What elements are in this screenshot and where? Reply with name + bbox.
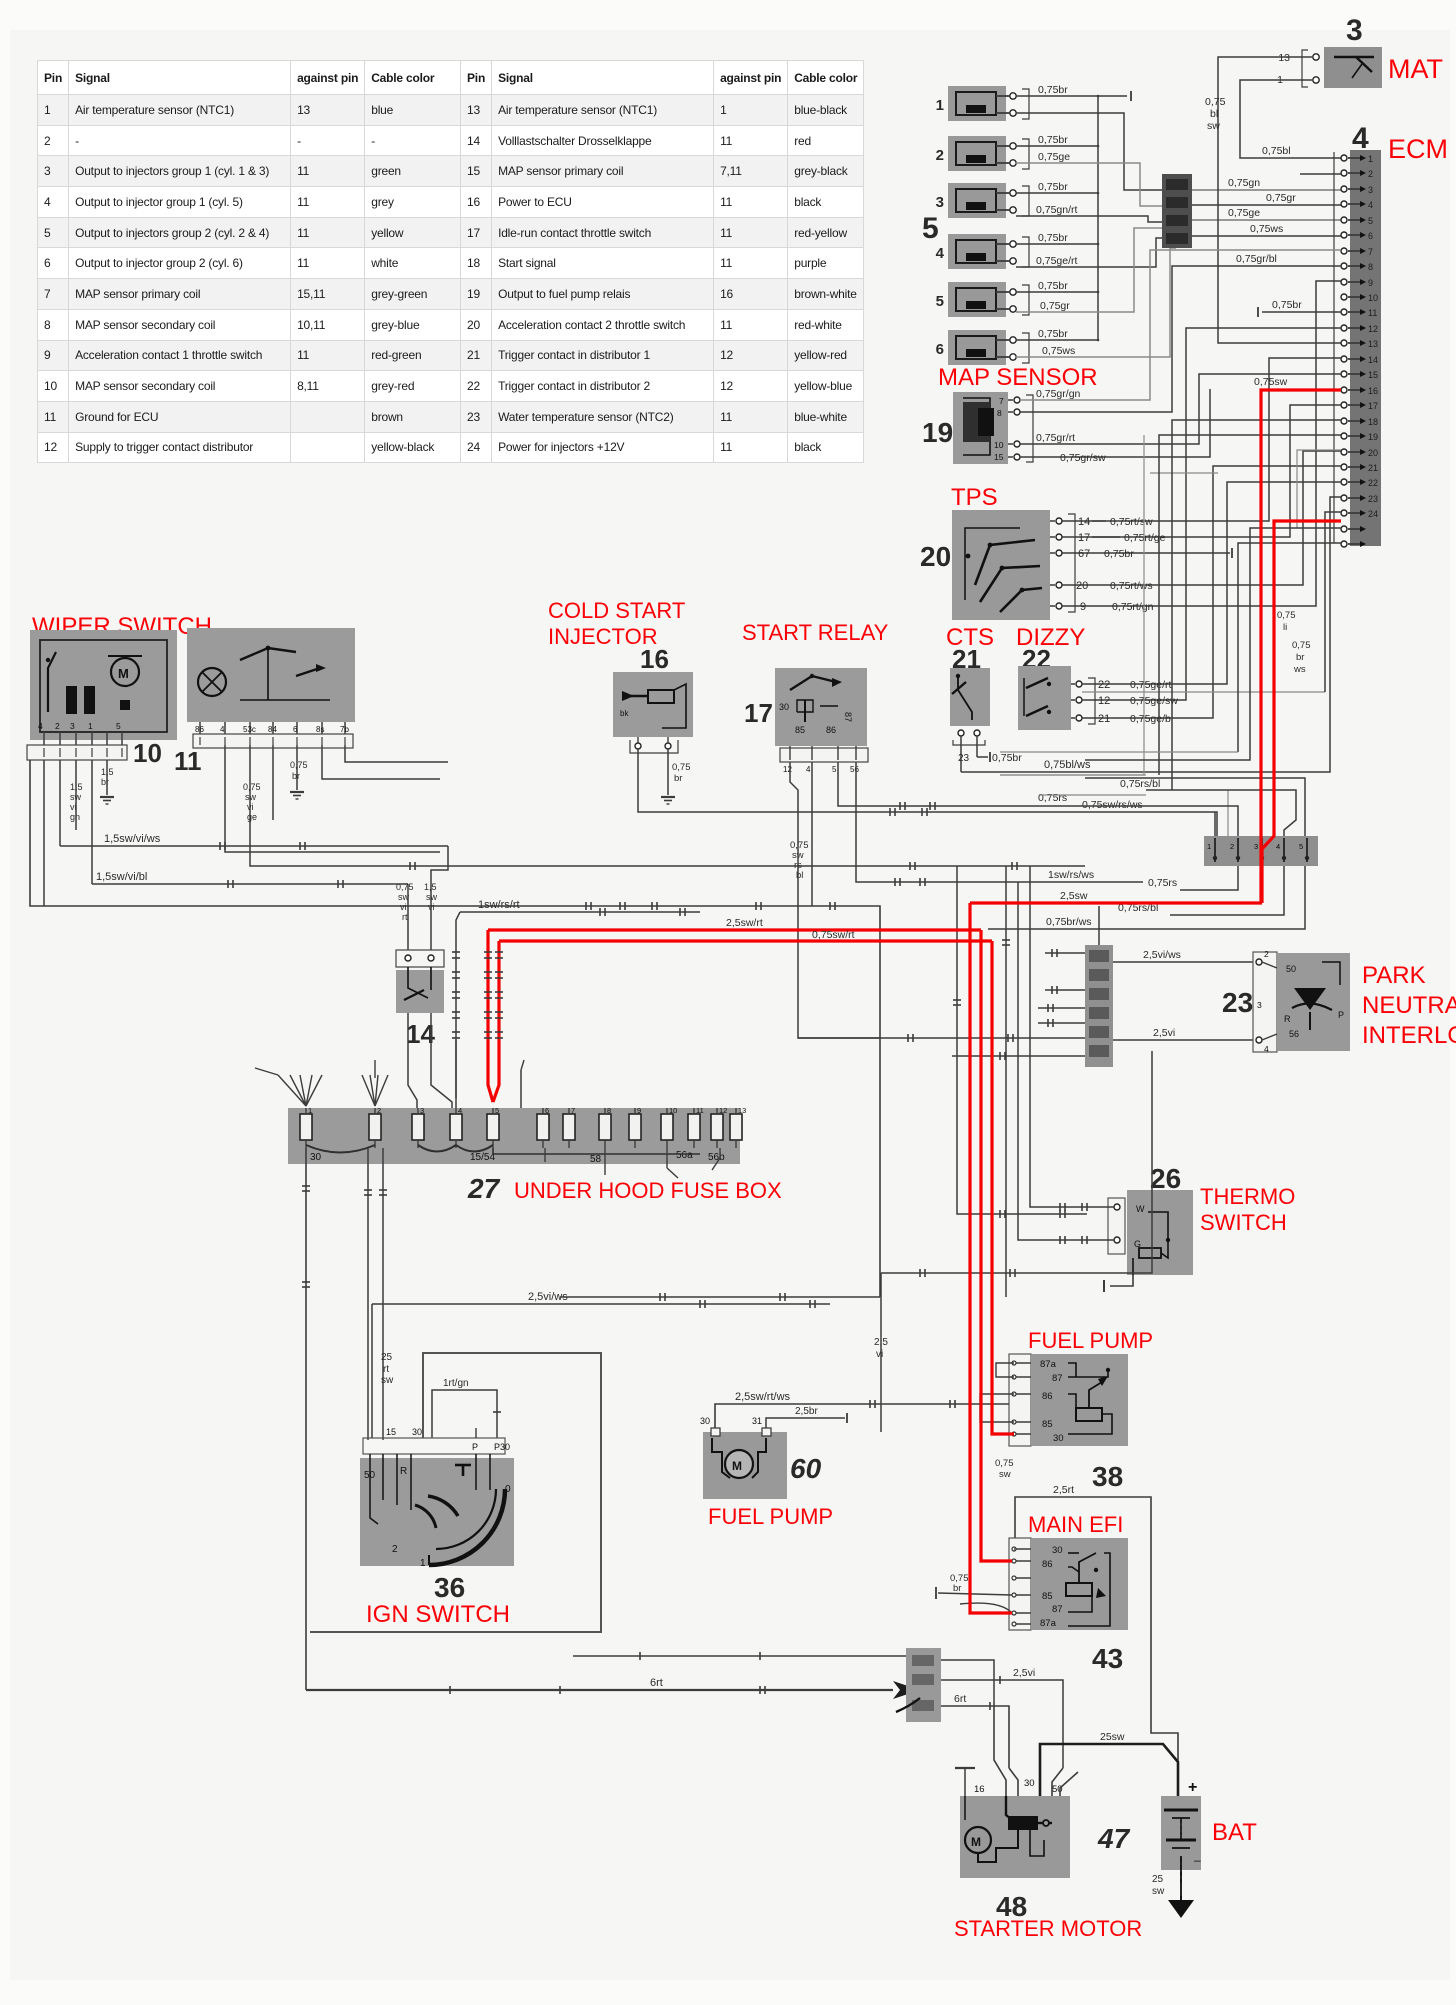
wiper switch contacts bbox=[66, 686, 77, 714]
svg-text:0,75gr/rt: 0,75gr/rt bbox=[1036, 432, 1075, 444]
svg-text:2: 2 bbox=[1230, 842, 1234, 851]
svg-text:2: 2 bbox=[55, 721, 60, 731]
svg-text:24: 24 bbox=[1368, 509, 1378, 519]
red arrow into fuse 5 bbox=[488, 930, 493, 1102]
svg-text:20: 20 bbox=[1076, 580, 1088, 592]
wire y1656 through connector to starter 30 bbox=[941, 1660, 994, 1703]
svg-text:16: 16 bbox=[1368, 386, 1378, 396]
svg-text:53c: 53c bbox=[243, 725, 256, 734]
relay box 11 bbox=[187, 628, 355, 722]
svg-text:0,75br: 0,75br bbox=[1104, 548, 1134, 560]
fuse 1 bbox=[300, 1114, 312, 1140]
wire 2,5rt loop bbox=[1015, 1497, 1178, 1796]
wire DIZZY 22 ge/rt to ECM pin22 bbox=[1082, 482, 1341, 684]
svg-text:87a: 87a bbox=[1040, 1618, 1057, 1629]
svg-text:7: 7 bbox=[1368, 247, 1373, 257]
svg-text:1sw/rs/rt: 1sw/rs/rt bbox=[478, 899, 520, 911]
wire from P short stub bbox=[475, 1428, 477, 1438]
svg-text:85: 85 bbox=[1042, 1591, 1053, 1602]
svg-text:12: 12 bbox=[1368, 324, 1378, 334]
svg-text:6: 6 bbox=[936, 341, 944, 358]
svg-text:0,75ge/bl: 0,75ge/bl bbox=[1130, 713, 1173, 725]
svg-text:6rt: 6rt bbox=[954, 1693, 966, 1705]
svg-text:12: 12 bbox=[1098, 695, 1110, 707]
svg-text:15: 15 bbox=[386, 1427, 396, 1437]
wire 85 squiggle bbox=[960, 1603, 1012, 1613]
svg-text:ge: ge bbox=[247, 812, 257, 822]
small connector above starter bbox=[906, 1648, 941, 1722]
svg-text:vi: vi bbox=[247, 802, 254, 812]
svg-text:0,75ge/rt: 0,75ge/rt bbox=[1130, 679, 1172, 691]
wire inj3 gn/rt bbox=[1016, 216, 1162, 222]
wire y795 horizontal rs/bl upper bbox=[1040, 794, 1146, 796]
svg-text:22: 22 bbox=[1098, 679, 1110, 691]
svg-text:56a: 56a bbox=[676, 1150, 693, 1161]
fuel pump motor 60 bbox=[703, 1432, 787, 1499]
svg-text:23: 23 bbox=[1222, 987, 1253, 1018]
extra mesh verticals above 5pin strip bbox=[1227, 790, 1229, 836]
svg-text:0,75: 0,75 bbox=[1292, 640, 1311, 651]
svg-text:0,75: 0,75 bbox=[290, 760, 308, 770]
relay 11 right wires across bbox=[345, 745, 448, 762]
svg-text:P: P bbox=[1338, 1010, 1344, 1020]
svg-text:6: 6 bbox=[293, 725, 298, 734]
svg-text:0,75ge/sw: 0,75ge/sw bbox=[1130, 695, 1178, 707]
ignition switch connector row bbox=[363, 1438, 505, 1454]
extra mesh vertical x1144 bbox=[1000, 435, 1144, 775]
svg-text:vi: vi bbox=[428, 902, 435, 912]
svg-text:23: 23 bbox=[958, 753, 970, 764]
svg-text:12: 12 bbox=[783, 765, 792, 774]
fuse 7 bbox=[563, 1114, 575, 1140]
wire 2,5br terminator bbox=[766, 1418, 845, 1428]
svg-text:30: 30 bbox=[310, 1152, 322, 1163]
svg-text:9: 9 bbox=[637, 1106, 641, 1115]
svg-text:0,75br: 0,75br bbox=[992, 752, 1022, 764]
svg-text:10: 10 bbox=[994, 440, 1004, 450]
svg-text:ws: ws bbox=[1293, 664, 1306, 675]
svg-text:17: 17 bbox=[1368, 401, 1378, 411]
svg-text:START RELAY: START RELAY bbox=[742, 620, 889, 645]
svg-text:0,75br: 0,75br bbox=[1038, 280, 1068, 292]
svg-text:1,5: 1,5 bbox=[101, 767, 114, 777]
wires 14 down to fuse box bbox=[408, 1013, 417, 1108]
svg-text:P30: P30 bbox=[494, 1442, 510, 1452]
wire CTS 0,75bl/ws to ECM pin23 bbox=[961, 497, 1341, 772]
fuse 4 bbox=[450, 1114, 462, 1140]
svg-text:0,75gn/rt: 0,75gn/rt bbox=[1036, 204, 1078, 216]
injector connector 1 bbox=[948, 86, 1006, 121]
5-pin connector strip bbox=[1204, 836, 1318, 866]
motor M symbol bbox=[725, 1450, 753, 1478]
ignition switch arcs bbox=[429, 1489, 505, 1565]
svg-text:br: br bbox=[953, 1583, 961, 1594]
extra mesh wire y473 bbox=[1150, 472, 1218, 474]
wires 15 30 entering connector from fuse box bbox=[367, 1438, 369, 1440]
wire y752 and y760 horizontals bbox=[1000, 751, 1238, 753]
svg-text:5: 5 bbox=[116, 721, 121, 731]
svg-text:26: 26 bbox=[1150, 1163, 1181, 1194]
svg-text:58: 58 bbox=[590, 1154, 602, 1165]
svg-text:sw: sw bbox=[1152, 1886, 1165, 1897]
svg-text:20: 20 bbox=[920, 541, 951, 572]
wire y1297 horizontal bbox=[560, 1296, 880, 1298]
wire strip pin4 down rs/bl bbox=[1170, 866, 1284, 915]
faint second wire under dizzy pin1 bbox=[1082, 691, 1325, 693]
svg-text:10: 10 bbox=[133, 738, 162, 768]
svg-text:14: 14 bbox=[1078, 516, 1090, 528]
svg-text:0,75rs: 0,75rs bbox=[1038, 792, 1067, 804]
wire inj1 gn to connector bbox=[1016, 113, 1162, 190]
wire inj4 ge/rt bbox=[1016, 238, 1162, 267]
svg-text:BAT: BAT bbox=[1212, 1819, 1257, 1846]
svg-text:gn: gn bbox=[70, 812, 80, 822]
svg-text:0,75ge: 0,75ge bbox=[1038, 151, 1070, 163]
svg-text:0,75bl: 0,75bl bbox=[1262, 145, 1291, 157]
ground T above 16 bbox=[955, 1767, 975, 1769]
svg-text:6: 6 bbox=[1368, 231, 1373, 241]
svg-text:0,75rt/sw: 0,75rt/sw bbox=[1110, 516, 1153, 528]
fuse link arcs under box bbox=[306, 1145, 375, 1153]
svg-text:15: 15 bbox=[994, 452, 1004, 462]
svg-text:2,5sw: 2,5sw bbox=[1060, 890, 1088, 902]
wire 0,75rs/bl to strip pin4 bbox=[1146, 790, 1296, 836]
wire splays into fuse 2 bbox=[362, 1075, 375, 1106]
svg-text:25: 25 bbox=[381, 1352, 393, 1363]
relay 38 pin stubs bbox=[1012, 1362, 1031, 1364]
svg-text:bl: bl bbox=[1210, 108, 1218, 120]
injector connector 6 bbox=[948, 330, 1006, 365]
DIZZY pins bbox=[1076, 681, 1082, 687]
svg-text:47: 47 bbox=[1097, 1823, 1131, 1854]
svg-text:86: 86 bbox=[1042, 1559, 1053, 1570]
svg-text:1: 1 bbox=[88, 721, 93, 731]
wire y1656 from ign area to starter connector bbox=[573, 1655, 906, 1657]
wiper switch pins bbox=[43, 732, 45, 745]
injector symbol bbox=[648, 690, 674, 703]
svg-text:–: – bbox=[1194, 1853, 1201, 1867]
svg-text:8: 8 bbox=[997, 408, 1002, 418]
svg-text:3: 3 bbox=[420, 1106, 424, 1115]
wire y778 right vertical into pin5 bbox=[1085, 778, 1305, 836]
relay 11 lever bbox=[240, 648, 296, 660]
svg-text:0,75br: 0,75br bbox=[1038, 232, 1068, 244]
svg-text:2: 2 bbox=[377, 1106, 381, 1115]
wire top of vertical strip bbox=[1098, 906, 1100, 945]
svg-text:1: 1 bbox=[308, 1106, 312, 1115]
svg-text:1,5: 1,5 bbox=[70, 782, 83, 792]
svg-text:0,75ge/rt: 0,75ge/rt bbox=[1036, 255, 1078, 267]
relay 38 left wires bbox=[996, 1363, 1014, 1377]
svg-text:br: br bbox=[1296, 652, 1304, 663]
svg-text:56b: 56b bbox=[708, 1152, 725, 1163]
svg-text:7: 7 bbox=[999, 396, 1004, 406]
svg-text:38: 38 bbox=[1092, 1461, 1123, 1492]
wire 2,5vi to park neutral bbox=[1113, 1039, 1256, 1041]
svg-text:2: 2 bbox=[1368, 169, 1373, 179]
svg-text:87a: 87a bbox=[1040, 1359, 1057, 1370]
red wire horizontal y930 from fuse bbox=[488, 928, 981, 931]
svg-text:FUEL PUMP: FUEL PUMP bbox=[708, 1504, 833, 1529]
svg-text:30: 30 bbox=[700, 1416, 710, 1426]
svg-text:2,5vi/ws: 2,5vi/ws bbox=[1143, 949, 1181, 961]
battery plates bbox=[1164, 1809, 1198, 1812]
svg-text:0,75: 0,75 bbox=[243, 782, 261, 792]
svg-text:2: 2 bbox=[936, 147, 944, 164]
svg-text:7: 7 bbox=[571, 1106, 575, 1115]
svg-text:4: 4 bbox=[38, 721, 43, 731]
relay 11 harness down bbox=[249, 745, 251, 860]
svg-text:13: 13 bbox=[738, 1106, 746, 1115]
thermo pins bbox=[1108, 1198, 1125, 1254]
svg-text:0,75sw/rs/ws: 0,75sw/rs/ws bbox=[1082, 799, 1143, 811]
pin signal table 1 bbox=[0, 0, 1456, 1]
svg-text:0,75br/ws: 0,75br/ws bbox=[1046, 916, 1092, 928]
svg-text:50: 50 bbox=[1286, 964, 1296, 974]
red vertical x992 to relay38 30 bbox=[992, 941, 1014, 1434]
thermo ground bbox=[1110, 1275, 1133, 1286]
svg-text:0,75br: 0,75br bbox=[1038, 328, 1068, 340]
svg-text:4: 4 bbox=[806, 765, 811, 774]
svg-text:2,5sw/rt: 2,5sw/rt bbox=[726, 917, 763, 929]
red vertical x981 to relay43 86 bbox=[981, 930, 1012, 1561]
vertical 8-cell connector strip bbox=[1085, 945, 1113, 1067]
svg-text:13: 13 bbox=[1368, 339, 1378, 349]
svg-text:rt: rt bbox=[402, 912, 408, 922]
svg-text:30: 30 bbox=[1024, 1778, 1035, 1789]
wire DIZZY 21 ge/bl to ECM pin21 bbox=[1082, 466, 1341, 718]
svg-text:COLD START: COLD START bbox=[548, 598, 685, 623]
start relay internals bbox=[790, 676, 836, 690]
svg-text:50: 50 bbox=[1052, 1784, 1063, 1795]
svg-text:8: 8 bbox=[1368, 262, 1373, 272]
svg-text:3: 3 bbox=[1254, 842, 1258, 851]
starter internals bbox=[965, 1827, 991, 1853]
starter feed slants bbox=[994, 1703, 1006, 1796]
svg-text:2: 2 bbox=[1264, 949, 1269, 959]
MAT sensor box 3 bbox=[1324, 47, 1382, 88]
svg-text:0,75rt/gn: 0,75rt/gn bbox=[1112, 601, 1154, 613]
svg-text:21: 21 bbox=[1098, 713, 1110, 725]
ECM left bracket rail bbox=[1333, 152, 1335, 543]
CTS pins bbox=[958, 730, 964, 736]
svg-text:14: 14 bbox=[1368, 355, 1378, 365]
svg-text:0,75sw/rt: 0,75sw/rt bbox=[812, 929, 855, 941]
wire 6rt right from connector bbox=[941, 1706, 1009, 1768]
svg-text:M: M bbox=[971, 1835, 981, 1849]
svg-text:0,75: 0,75 bbox=[1277, 610, 1296, 621]
svg-text:18: 18 bbox=[1368, 417, 1378, 427]
wire 2,5vi/ws bbox=[372, 1303, 830, 1305]
vertical 2,5vi middle bbox=[880, 1273, 882, 1432]
svg-text:M: M bbox=[118, 666, 129, 681]
svg-text:10: 10 bbox=[669, 1106, 677, 1115]
svg-text:0,75gr: 0,75gr bbox=[1040, 300, 1070, 312]
svg-text:NEUTRAL: NEUTRAL bbox=[1362, 992, 1456, 1019]
svg-text:vi: vi bbox=[876, 1349, 883, 1360]
svg-text:1,5sw/vi/ws: 1,5sw/vi/ws bbox=[104, 833, 161, 845]
svg-text:1: 1 bbox=[936, 97, 944, 114]
svg-text:23: 23 bbox=[1368, 494, 1378, 504]
svg-text:1sw/rs/ws: 1sw/rs/ws bbox=[1048, 869, 1094, 881]
svg-text:1rt/gn: 1rt/gn bbox=[443, 1378, 469, 1389]
svg-text:3: 3 bbox=[1257, 1000, 1262, 1010]
wire 2,5vi right from connector bbox=[941, 1680, 1063, 1768]
wire TPS 9 rt/gn to ECM pin9 bbox=[1062, 281, 1341, 606]
svg-text:rt: rt bbox=[383, 1364, 389, 1375]
red wire from ECM pin24 down bbox=[1262, 521, 1341, 903]
svg-text:17: 17 bbox=[1078, 532, 1090, 544]
svg-text:5: 5 bbox=[922, 212, 939, 245]
wire into strip cell y990 bbox=[1045, 989, 1085, 991]
wire splays into fuse 1 bbox=[278, 1075, 306, 1106]
svg-text:MAIN EFI: MAIN EFI bbox=[1028, 1512, 1123, 1537]
start relay wire down to y1038 bbox=[790, 762, 880, 1038]
ECM pin11 brown terminator wire bbox=[1262, 311, 1341, 313]
injector connector 5 bbox=[948, 282, 1006, 317]
svg-text:vi: vi bbox=[70, 802, 77, 812]
svg-text:R: R bbox=[400, 1466, 407, 1477]
svg-text:STARTER MOTOR: STARTER MOTOR bbox=[954, 1916, 1142, 1941]
svg-text:11: 11 bbox=[696, 1106, 704, 1115]
svg-text:56: 56 bbox=[1289, 1029, 1299, 1039]
start relay right wires to east bbox=[838, 762, 1238, 836]
fuse 6 bbox=[537, 1114, 549, 1140]
svg-text:1: 1 bbox=[1368, 154, 1373, 164]
svg-text:5: 5 bbox=[936, 293, 944, 310]
svg-text:17: 17 bbox=[744, 698, 773, 728]
pin signal table 2 bbox=[0, 0, 1456, 1]
wire 6rt horizontal bbox=[306, 1689, 893, 1691]
MAT pins bbox=[1313, 54, 1319, 60]
relay 11 lamp symbol bbox=[198, 668, 226, 696]
svg-text:16: 16 bbox=[640, 644, 669, 674]
extra mesh vertical x1325 bbox=[1325, 512, 1341, 692]
svg-text:12: 12 bbox=[719, 1106, 727, 1115]
wire bbox=[1016, 291, 1098, 293]
svg-text:30: 30 bbox=[1053, 1433, 1064, 1444]
wire bbox=[1016, 145, 1098, 147]
wire 0,75bl/ws upper bbox=[1000, 774, 1146, 776]
svg-text:25: 25 bbox=[1152, 1874, 1164, 1885]
fuse 12 bbox=[711, 1114, 723, 1140]
ground stub wiper bbox=[106, 760, 108, 795]
wire 2,5sw/rt/ws from fuel pump to relay bbox=[715, 1404, 1009, 1432]
svg-text:5: 5 bbox=[495, 1106, 499, 1115]
injector brown bus wire bbox=[1097, 96, 1099, 340]
injector connector 3 bbox=[948, 183, 1006, 218]
svg-text:48: 48 bbox=[996, 1891, 1027, 1922]
wire strip pin1 up from y812 net bbox=[1214, 812, 1216, 836]
svg-text:sw: sw bbox=[70, 792, 82, 802]
wire 25sw thick from starter to battery bbox=[1040, 1744, 1178, 1796]
svg-text:MAT: MAT bbox=[1388, 54, 1443, 84]
svg-text:6rt: 6rt bbox=[650, 1677, 663, 1689]
middle 4-pin connector bbox=[1162, 174, 1192, 248]
wire ECM pin26 bbox=[1238, 543, 1341, 752]
wire MAP pin8 bbox=[1020, 266, 1341, 412]
extra mesh wire pin18b bbox=[1297, 450, 1341, 528]
svg-text:0,75br: 0,75br bbox=[1038, 84, 1068, 96]
svg-text:0,75: 0,75 bbox=[1205, 96, 1226, 108]
svg-text:br: br bbox=[292, 771, 300, 781]
svg-text:43: 43 bbox=[1092, 1643, 1123, 1674]
svg-text:1: 1 bbox=[420, 1558, 426, 1569]
svg-text:br: br bbox=[674, 773, 682, 784]
ignition switch key T symbol bbox=[455, 1464, 471, 1467]
svg-text:sw: sw bbox=[999, 1469, 1011, 1480]
svg-text:31: 31 bbox=[752, 1416, 762, 1426]
svg-text:0,75gn: 0,75gn bbox=[1228, 177, 1260, 189]
wire 1,5sw/vi/ws bbox=[60, 845, 448, 847]
svg-text:4: 4 bbox=[220, 725, 225, 734]
wires left of thermo going up bbox=[1030, 866, 1048, 1207]
wire bbox=[1016, 95, 1098, 97]
wires from y846/y884 down into 14 bbox=[431, 846, 448, 950]
thermo wires left bbox=[1048, 1206, 1114, 1208]
TPS pins bbox=[1056, 518, 1062, 524]
wire DIZZY 12 ge/sw to ECM pin12 bbox=[1082, 328, 1341, 700]
svg-text:4: 4 bbox=[1276, 842, 1280, 851]
wires into vertical strip from left bbox=[1038, 1007, 1085, 1009]
svg-text:TPS: TPS bbox=[951, 484, 998, 511]
svg-text:0,75gr/bl: 0,75gr/bl bbox=[1236, 253, 1277, 265]
cold start pins bbox=[635, 743, 641, 749]
svg-text:8: 8 bbox=[607, 1106, 611, 1115]
svg-text:67: 67 bbox=[1078, 548, 1090, 560]
svg-text:2: 2 bbox=[392, 1544, 398, 1555]
svg-text:0,75br: 0,75br bbox=[1038, 134, 1068, 146]
svg-text:3: 3 bbox=[936, 194, 944, 211]
svg-text:0,75br: 0,75br bbox=[1272, 299, 1302, 311]
wire y1273 horizontal bbox=[881, 1051, 1152, 1273]
svg-text:bl: bl bbox=[796, 870, 803, 881]
wiper switch box 10 bbox=[30, 630, 177, 740]
fuse 8 bbox=[599, 1114, 611, 1140]
svg-text:27: 27 bbox=[467, 1173, 501, 1204]
verticals down from strips to relays region bbox=[1005, 866, 1007, 1297]
fuse 11 bbox=[688, 1114, 700, 1140]
svg-text:UNDER HOOD FUSE BOX: UNDER HOOD FUSE BOX bbox=[514, 1178, 782, 1203]
svg-text:0,75: 0,75 bbox=[396, 882, 414, 892]
svg-text:5: 5 bbox=[832, 765, 837, 774]
wire MAT pin1 0,75bl to ECM pin 1 bbox=[1240, 80, 1341, 158]
svg-text:0,75rs: 0,75rs bbox=[1148, 877, 1177, 889]
red wire horizontal y903 bbox=[970, 901, 1262, 904]
svg-text:10: 10 bbox=[1368, 293, 1378, 303]
injector connector 4 bbox=[948, 234, 1006, 269]
black splice dashes over red verticals and x456 bbox=[452, 951, 460, 953]
svg-text:3: 3 bbox=[1346, 14, 1363, 47]
svg-text:PARK: PARK bbox=[1362, 962, 1426, 989]
red wire horizontal y941 bbox=[499, 939, 992, 942]
svg-text:15: 15 bbox=[1368, 370, 1378, 380]
svg-text:vi: vi bbox=[400, 902, 407, 912]
red vertical x970 to relay43 87 bbox=[970, 903, 1012, 1613]
svg-text:0,75gr/gn: 0,75gr/gn bbox=[1036, 388, 1081, 400]
relay 38 internals bbox=[1076, 1408, 1102, 1421]
svg-text:2,5br: 2,5br bbox=[795, 1406, 818, 1417]
svg-text:M: M bbox=[732, 1459, 742, 1473]
long wire y906 bbox=[30, 760, 880, 1297]
svg-text:16: 16 bbox=[974, 1784, 985, 1795]
svg-text:sw: sw bbox=[426, 892, 438, 902]
injector connector 2 bbox=[948, 136, 1006, 171]
fuse 13 bbox=[730, 1114, 742, 1140]
svg-text:W: W bbox=[1136, 1204, 1145, 1214]
wire MAP gr/rt to ECM pin15 bbox=[1020, 374, 1341, 444]
wire MAT pin13 blue-black down to ECM pin13 bbox=[1218, 57, 1341, 343]
